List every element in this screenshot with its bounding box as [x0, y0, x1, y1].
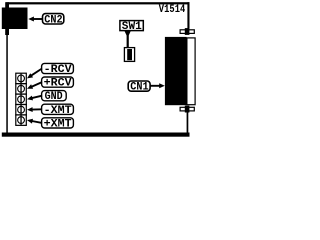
terminal 4 screw circle: [18, 106, 25, 113]
connector CN1 top screw bar: [180, 30, 194, 34]
connector CN1 top screw block: [185, 28, 190, 35]
label CN2 box: [43, 14, 64, 24]
arrow SW1 tail bar: [127, 36, 129, 49]
svg-text:GND: GND: [45, 91, 63, 103]
label SW1 box: [120, 21, 143, 31]
arrow GND head: [27, 96, 33, 101]
terminal 2 slot line: [20, 84, 22, 94]
label GND box: [42, 91, 67, 101]
arrow CN1 head: [159, 83, 165, 88]
svg-text:CN2: CN2: [44, 14, 63, 26]
card outline right border upper segment: [187, 2, 189, 29]
terminal 3 slot line: [20, 94, 22, 104]
card outline top border: [8, 2, 190, 4]
terminal 4 slot line: [20, 105, 22, 115]
svg-text:-RCV: -RCV: [44, 64, 72, 76]
arrow CN2 head: [28, 17, 34, 22]
arrow +RCV tail: [32, 82, 42, 87]
switch SW1 body box: [124, 48, 134, 62]
terminal cell 5: [16, 115, 26, 125]
connector CN1 shell outline: [187, 38, 195, 105]
svg-text:CN1: CN1: [130, 82, 149, 94]
connector CN1 body: [165, 37, 187, 105]
connector CN1 bottom screw block: [185, 106, 190, 113]
arrow +XMT head: [27, 119, 33, 124]
arrow CN1 tail: [150, 85, 160, 87]
terminal 1 slot line: [20, 74, 22, 84]
svg-text:+XMT: +XMT: [44, 118, 72, 130]
arrow CN2 tail: [33, 18, 42, 20]
label +XMT box: [42, 118, 74, 128]
arrow GND tail: [32, 96, 42, 98]
label +RCV box: [42, 77, 74, 87]
terminal 1 screw circle: [18, 75, 25, 82]
terminal 2 screw circle: [18, 85, 25, 92]
arrow -RCV head: [27, 73, 33, 78]
connector CN2 body: [2, 8, 28, 30]
svg-text:-XMT: -XMT: [44, 105, 72, 117]
svg-text:V1514: V1514: [159, 4, 186, 16]
terminal cell 4: [16, 104, 26, 114]
terminal cell 2: [16, 84, 26, 94]
arrow -XMT head: [27, 107, 33, 112]
terminal 3 screw circle: [18, 96, 25, 103]
card outline left border: [6, 2, 8, 133]
svg-text:+RCV: +RCV: [44, 78, 72, 90]
arrow -XMT tail: [32, 108, 42, 110]
arrow +RCV head: [27, 84, 33, 89]
terminal cell 1: [16, 73, 26, 83]
terminal cell 3: [16, 94, 26, 104]
card outline right border lower segment: [187, 112, 189, 133]
label CN1 box: [128, 81, 150, 91]
arrow +XMT tail: [32, 121, 42, 123]
label -XMT box: [42, 104, 74, 114]
switch SW1 slider black bar: [127, 49, 132, 60]
arrow SW1 pointer triangle: [124, 31, 131, 38]
connector CN1 bottom screw bar: [180, 107, 194, 111]
terminal 5 slot line: [20, 115, 22, 125]
label -RCV box: [42, 63, 74, 73]
arrow -RCV tail: [31, 69, 42, 76]
card bottom edge bar: [2, 133, 190, 137]
terminal block column: [16, 73, 26, 125]
connector CN2 mounting bar: [5, 2, 9, 35]
terminal 5 screw circle: [18, 117, 25, 124]
